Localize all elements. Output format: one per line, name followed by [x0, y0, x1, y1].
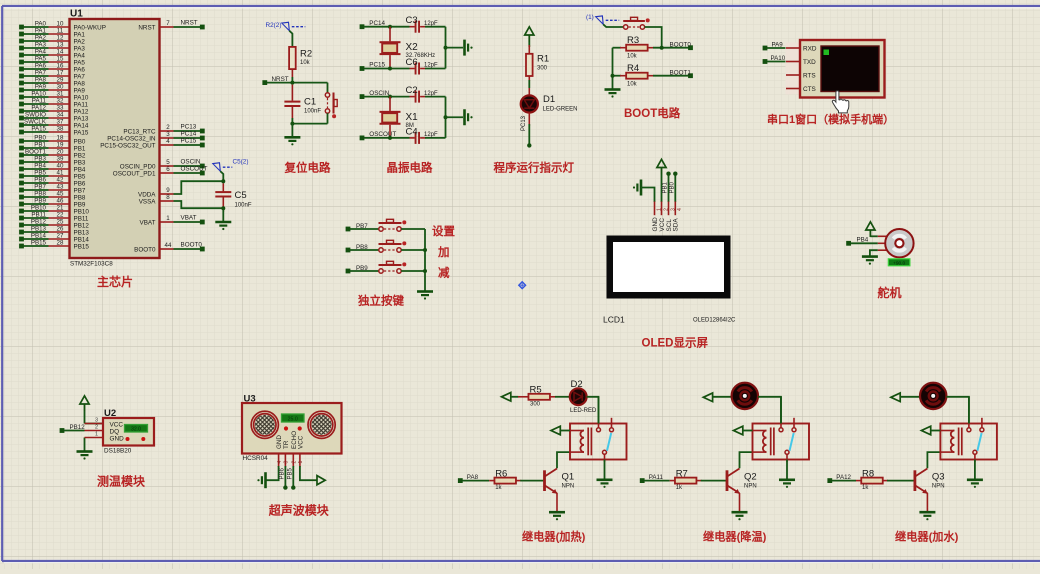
svg-text:34: 34: [57, 112, 64, 119]
svg-text:PA3: PA3: [74, 45, 86, 52]
node PA10: [763, 55, 787, 64]
resistor R7 1k: [670, 468, 726, 491]
virtual terminal serial window: [786, 40, 885, 98]
svg-text:PA3: PA3: [35, 42, 47, 49]
svg-text:STM32F103C8: STM32F103C8: [70, 261, 113, 268]
svg-text:X1: X1: [406, 112, 419, 123]
wire relay common to ground: [974, 460, 976, 480]
svg-text:BOOT电路: BOOT电路: [624, 106, 681, 120]
svg-text:加: 加: [437, 245, 450, 259]
svg-text:PA5: PA5: [74, 59, 86, 66]
pin VBAT (1): [140, 214, 205, 226]
svg-text:PB0: PB0: [669, 181, 675, 193]
svg-text:PB15: PB15: [74, 243, 90, 250]
svg-text:PB15: PB15: [31, 240, 47, 247]
svg-text:27: 27: [57, 233, 64, 240]
svg-text:300: 300: [537, 65, 548, 71]
wire relay contact up: [968, 397, 970, 424]
svg-text:SDA: SDA: [673, 218, 680, 232]
ground Q3: [919, 512, 935, 520]
node PA9: [763, 41, 787, 50]
wire coil to collector: [927, 452, 940, 468]
svg-text:PA5: PA5: [35, 56, 47, 63]
node PC14: [360, 20, 410, 29]
pin PA7 (17): [19, 70, 85, 81]
svg-text:C2: C2: [406, 85, 418, 96]
ground Q2: [732, 512, 748, 520]
svg-text:PB7: PB7: [34, 184, 46, 191]
pin PA0 (10): [19, 21, 106, 32]
svg-text:12pF: 12pF: [424, 91, 438, 97]
resistor R5 300: [518, 384, 570, 407]
svg-text:设置: 设置: [432, 224, 455, 238]
U3 pins: [277, 454, 304, 468]
svg-text:R1: R1: [537, 54, 549, 65]
wire D1 to PC13: [521, 113, 530, 144]
power symbol U3 VCC: [300, 466, 325, 485]
servo motor: [878, 229, 914, 266]
ground OLED: [633, 180, 655, 203]
pin PB4 (40): [19, 163, 86, 174]
svg-text:BOOT0: BOOT0: [181, 241, 203, 248]
svg-text:D2: D2: [571, 379, 583, 390]
pin PB7 (43): [19, 184, 86, 195]
svg-text:R2: R2: [300, 49, 312, 60]
chip U1 STM32F103C8: [70, 9, 160, 268]
svg-text:VBAT: VBAT: [181, 214, 197, 221]
wire BOOT button to BOOT0: [645, 27, 662, 48]
node PB5 ECHO: [287, 466, 295, 490]
svg-text:U3: U3: [244, 394, 256, 405]
svg-text:11: 11: [57, 28, 64, 35]
pin PC15-OSC32_OUT (4): [100, 137, 204, 149]
button key PB7: [384, 228, 396, 230]
pin PB1 (19): [19, 142, 86, 153]
wire crystal rail: [444, 97, 464, 138]
svg-text:U2: U2: [104, 408, 116, 419]
capacitor C3 12pF: [406, 15, 446, 33]
wire VDDA to C5: [174, 181, 224, 194]
svg-text:PB9: PB9: [74, 201, 86, 208]
svg-text:PB13: PB13: [74, 229, 90, 236]
pin PB15 (28): [19, 240, 89, 251]
wire crystal rail: [444, 27, 464, 69]
svg-text:PA4: PA4: [35, 49, 47, 56]
node OSCOUT: [360, 131, 410, 140]
pin PA6 (16): [19, 63, 85, 74]
svg-text:NRST: NRST: [272, 76, 289, 83]
pin SWCLK (37): [19, 119, 89, 130]
svg-text:16: 16: [57, 63, 64, 70]
pin PB13 (26): [19, 226, 89, 237]
capacitor C5 100nF: [215, 183, 252, 221]
power symbol OLED VCC: [657, 159, 666, 202]
power arrow relay coil: [551, 426, 570, 435]
pin BOOT0 (44): [134, 241, 205, 253]
svg-text:GND: GND: [110, 435, 125, 442]
svg-text:1: 1: [95, 432, 98, 438]
svg-text:X2: X2: [406, 42, 419, 53]
svg-text:继电器(加热): 继电器(加热): [522, 530, 586, 544]
svg-text:18: 18: [57, 135, 64, 142]
motor fan 3: [920, 383, 946, 409]
svg-text:PA11: PA11: [74, 101, 89, 108]
svg-text:1k: 1k: [676, 485, 683, 491]
pin PC13_RTC (2): [123, 123, 204, 135]
svg-text:R7: R7: [676, 468, 688, 479]
svg-text:13: 13: [57, 42, 64, 49]
power symbol C5(2): [213, 159, 249, 184]
wire emitter to ground: [926, 493, 928, 512]
svg-text:PC13: PC13: [521, 115, 527, 131]
svg-text:PA15: PA15: [74, 129, 89, 136]
svg-text:PB13: PB13: [31, 226, 47, 233]
svg-text:R8: R8: [862, 468, 874, 479]
svg-text:测温模块: 测温模块: [97, 474, 146, 489]
resistor R4 10k: [613, 63, 689, 88]
svg-text:PB14: PB14: [31, 233, 47, 240]
node BOOT1: [670, 69, 693, 78]
svg-text:PB4: PB4: [34, 163, 46, 170]
relay: [940, 418, 997, 462]
svg-text:R5: R5: [530, 384, 542, 395]
svg-text:43: 43: [57, 184, 64, 191]
svg-text:VCC: VCC: [110, 421, 124, 428]
svg-text:C1: C1: [304, 97, 316, 108]
wire relay contact up: [598, 397, 600, 424]
svg-text:PA0: PA0: [35, 21, 47, 28]
svg-text:OSCOUT: OSCOUT: [369, 131, 396, 138]
svg-text:14: 14: [57, 49, 64, 56]
svg-text:NPN: NPN: [744, 484, 757, 490]
pin PC14-OSC32_IN (3): [107, 130, 204, 142]
svg-text:PB8: PB8: [356, 244, 368, 251]
ground keys: [417, 292, 433, 300]
svg-text:PA8: PA8: [74, 80, 86, 87]
svg-text:PB2: PB2: [74, 152, 86, 159]
svg-text:VBAT: VBAT: [140, 219, 156, 226]
svg-text:32: 32: [57, 98, 64, 105]
node OSCIN: [360, 90, 410, 99]
svg-text:PB12: PB12: [70, 424, 86, 431]
node PB4: [846, 237, 878, 246]
svg-text:PB9: PB9: [34, 198, 46, 205]
svg-text:PB5: PB5: [287, 467, 293, 479]
svg-text:2: 2: [166, 124, 170, 131]
svg-text:PB10: PB10: [31, 205, 47, 212]
ground BOOT: [605, 90, 621, 98]
wire key to bus: [401, 270, 425, 272]
svg-text:C3: C3: [406, 15, 418, 26]
svg-text:PC15-OSC32_OUT: PC15-OSC32_OUT: [100, 142, 155, 149]
pin NRST (7): [138, 19, 204, 31]
svg-text:PA10: PA10: [74, 94, 89, 101]
pin PB10 (21): [19, 205, 89, 216]
svg-text:PA11: PA11: [649, 474, 664, 481]
svg-text:PB1: PB1: [34, 142, 46, 149]
svg-text:10k: 10k: [627, 53, 638, 59]
pin PA11 (32): [19, 98, 88, 109]
svg-text:25.0: 25.0: [288, 417, 298, 423]
pin PB12 (25): [19, 219, 89, 230]
svg-text:SWCLK: SWCLK: [24, 119, 47, 126]
svg-text:5: 5: [166, 159, 170, 166]
svg-text:继电器(加水): 继电器(加水): [895, 530, 959, 544]
pin PA9 (30): [19, 84, 85, 95]
svg-text:45: 45: [57, 191, 64, 198]
svg-text:PA4: PA4: [74, 52, 86, 59]
svg-text:Q3: Q3: [932, 472, 945, 483]
svg-text:1: 1: [298, 461, 304, 464]
display LCD1 OLED12864I2C: [603, 236, 736, 325]
svg-text:3: 3: [95, 418, 98, 424]
svg-text:39: 39: [57, 156, 64, 163]
svg-text:42: 42: [57, 177, 64, 184]
ground relay: [967, 480, 983, 488]
capacitor C6 12pF: [406, 57, 446, 75]
node PB7: [346, 223, 379, 232]
svg-text:NRST: NRST: [138, 24, 155, 31]
pin PB11 (22): [19, 212, 89, 223]
svg-text:OSCOUT_PD1: OSCOUT_PD1: [113, 170, 156, 177]
svg-text:OSCIN: OSCIN: [369, 90, 389, 97]
power symbol LED: [525, 27, 534, 42]
pin PB6 (42): [19, 177, 86, 188]
wire key to bus: [401, 249, 425, 251]
pin BOOT1 (20): [19, 149, 86, 160]
relay: [753, 418, 810, 462]
svg-text:PA6: PA6: [35, 63, 47, 70]
svg-text:OLED12864I2C: OLED12864I2C: [693, 318, 736, 324]
svg-text:PA7: PA7: [35, 70, 47, 77]
pin PA4 (14): [19, 49, 85, 60]
svg-text:6: 6: [166, 166, 170, 173]
svg-text:PA12: PA12: [836, 474, 851, 481]
pin PA2 (12): [19, 35, 85, 46]
svg-text:C6: C6: [406, 57, 418, 68]
LED D2 LED-RED: [570, 379, 597, 414]
pin PB8 (45): [19, 191, 86, 202]
power arrow motor 3: [891, 393, 920, 402]
svg-text:OSCOUT: OSCOUT: [181, 165, 208, 172]
svg-text:PB6: PB6: [74, 180, 86, 187]
svg-text:15: 15: [57, 56, 64, 63]
ground relay: [779, 480, 795, 488]
pin PA12 (33): [19, 105, 89, 116]
power arrow relay coil: [921, 426, 940, 435]
wire coil to collector: [740, 452, 753, 468]
svg-text:PB6: PB6: [279, 467, 285, 479]
svg-text:7: 7: [166, 20, 170, 27]
svg-text:TXD: TXD: [803, 59, 816, 66]
svg-text:CTS: CTS: [803, 86, 816, 93]
svg-text:300: 300: [530, 401, 541, 407]
ground servo: [862, 250, 878, 265]
svg-text:PA13: PA13: [74, 115, 89, 122]
svg-text:4: 4: [277, 461, 283, 464]
node PA8: [458, 474, 489, 483]
capacitor C4 12pF: [406, 126, 446, 144]
svg-text:PA1: PA1: [74, 31, 86, 38]
svg-text:4: 4: [677, 208, 683, 211]
svg-text:PC14: PC14: [369, 20, 385, 27]
origin marker: [519, 282, 526, 289]
svg-text:RXD: RXD: [803, 46, 817, 53]
svg-text:VDDA: VDDA: [138, 191, 156, 198]
svg-text:1k: 1k: [862, 485, 869, 491]
ground C5: [215, 222, 231, 230]
ground Q1: [549, 512, 565, 520]
svg-text:PB1: PB1: [663, 181, 669, 193]
pin PA5 (15): [19, 56, 85, 67]
svg-text:程序运行指示灯: 程序运行指示灯: [494, 161, 575, 175]
power symbol R2(2): [266, 22, 306, 47]
svg-text:10: 10: [57, 21, 64, 28]
svg-text:DQ: DQ: [110, 428, 120, 435]
wire emitter to ground: [739, 493, 741, 512]
svg-text:30: 30: [57, 84, 64, 91]
svg-text:9: 9: [166, 187, 170, 194]
svg-text:主芯片: 主芯片: [97, 274, 133, 289]
svg-text:PA10: PA10: [771, 55, 786, 62]
OLED pins: [652, 202, 683, 232]
pin VSSA (8): [139, 194, 174, 206]
pin PA3 (13): [19, 42, 85, 53]
svg-text:1: 1: [166, 215, 170, 222]
svg-text:PC13_RTC: PC13_RTC: [123, 128, 156, 135]
svg-text:PB5: PB5: [34, 170, 46, 177]
wire relay common to ground: [786, 460, 788, 480]
svg-text:OSCIN_PD0: OSCIN_PD0: [120, 163, 156, 170]
svg-text:LED-RED: LED-RED: [570, 408, 597, 414]
svg-text:继电器(降温): 继电器(降温): [703, 530, 767, 544]
svg-text:串口1窗口（模拟手机端）: 串口1窗口（模拟手机端）: [767, 112, 894, 126]
svg-text:VCC: VCC: [659, 218, 666, 232]
svg-text:PA7: PA7: [74, 73, 86, 80]
pin OSCOUT_PD1 (6): [113, 165, 208, 177]
power symbol servo: [866, 222, 878, 237]
svg-text:PB11: PB11: [74, 215, 89, 222]
svg-text:PA9: PA9: [74, 87, 86, 94]
svg-text:28: 28: [57, 240, 64, 247]
button key PB9: [384, 270, 396, 272]
svg-text:PA2: PA2: [74, 38, 86, 45]
node PB6 TR: [279, 466, 287, 490]
svg-text:SWDIO: SWDIO: [25, 112, 46, 119]
svg-text:PA11: PA11: [32, 98, 47, 105]
svg-text:10k: 10k: [300, 60, 311, 66]
transistor Q1 NPN: [543, 469, 574, 494]
svg-text:PB1: PB1: [74, 145, 86, 152]
transistor Q3 NPN: [914, 469, 945, 494]
button BOOT: [629, 26, 640, 28]
resistor R1 300: [526, 42, 549, 88]
svg-text:晶振电路: 晶振电路: [387, 161, 433, 175]
svg-text:BOOT0: BOOT0: [134, 246, 156, 253]
ground reset: [284, 137, 300, 145]
svg-text:PA0-WKUP: PA0-WKUP: [74, 24, 106, 31]
svg-text:4: 4: [166, 138, 170, 145]
svg-text:37: 37: [57, 119, 64, 126]
wire key bus: [423, 229, 427, 292]
resistor R6 1k: [489, 468, 543, 491]
svg-text:PB14: PB14: [74, 236, 90, 243]
wire D2 to relay: [587, 397, 599, 424]
motor fan 2: [732, 383, 758, 409]
svg-text:复位电路: 复位电路: [284, 161, 331, 175]
pin OSCIN_PD0 (5): [120, 158, 205, 170]
pin PA15 (38): [19, 126, 89, 137]
ground crystal rail: [465, 109, 473, 125]
svg-text:31: 31: [57, 91, 64, 98]
svg-text:R4: R4: [627, 63, 639, 74]
button reset: [325, 83, 337, 124]
ground U2: [77, 438, 93, 460]
svg-text:33: 33: [57, 105, 64, 112]
svg-text:46: 46: [57, 198, 64, 205]
ground crystal rail: [465, 40, 473, 56]
svg-text:PB9: PB9: [356, 265, 368, 272]
svg-text:LCD1: LCD1: [603, 315, 625, 325]
sensor U2 DS18B20: [85, 408, 155, 454]
svg-text:PA9: PA9: [35, 84, 47, 91]
svg-text:PB3: PB3: [34, 156, 46, 163]
svg-text:C4: C4: [406, 126, 418, 137]
svg-text:PB3: PB3: [74, 159, 86, 166]
wire VSSA to C5: [174, 201, 224, 208]
svg-text:PA1: PA1: [35, 28, 47, 35]
svg-text:22: 22: [57, 212, 64, 219]
wire C1 bottom: [290, 122, 327, 137]
svg-text:PB11: PB11: [31, 212, 46, 219]
wire relay contact up: [780, 397, 782, 424]
svg-text:PA8: PA8: [467, 474, 479, 481]
svg-text:12: 12: [57, 35, 64, 42]
svg-text:减: 减: [438, 266, 450, 280]
svg-text:BOOT1: BOOT1: [25, 149, 47, 156]
transistor Q2 NPN: [726, 469, 757, 494]
pin PB9 (46): [19, 198, 86, 209]
svg-text:PB6: PB6: [34, 177, 46, 184]
wire emitter to ground: [556, 493, 558, 512]
wire BOOT left rail: [611, 48, 615, 89]
svg-text:PA12: PA12: [31, 105, 46, 112]
node PA11: [640, 474, 670, 483]
svg-text:PC15: PC15: [369, 62, 385, 69]
svg-text:38: 38: [57, 126, 64, 133]
svg-text:HCSR04: HCSR04: [243, 455, 269, 462]
button key PB8: [384, 249, 396, 251]
mouse cursor: [832, 91, 848, 113]
svg-text:PA9: PA9: [772, 41, 784, 48]
svg-text:PB12: PB12: [74, 222, 90, 229]
svg-text:PA15: PA15: [31, 126, 46, 133]
svg-text:PA14: PA14: [74, 122, 89, 129]
svg-text:12pF: 12pF: [424, 63, 438, 69]
ground relay: [597, 480, 613, 488]
svg-text:超声波模块: 超声波模块: [268, 503, 330, 518]
svg-text:PB10: PB10: [74, 208, 90, 215]
node PB12: [60, 424, 86, 433]
power arrow R5: [502, 393, 519, 402]
svg-text:3: 3: [284, 461, 290, 464]
svg-text:PB8: PB8: [74, 194, 86, 201]
svg-text:PB7: PB7: [356, 223, 368, 230]
svg-text:12pF: 12pF: [424, 21, 438, 27]
svg-text:PB4: PB4: [857, 237, 869, 244]
svg-text:26: 26: [57, 226, 64, 233]
pin SWDIO (34): [19, 112, 89, 123]
